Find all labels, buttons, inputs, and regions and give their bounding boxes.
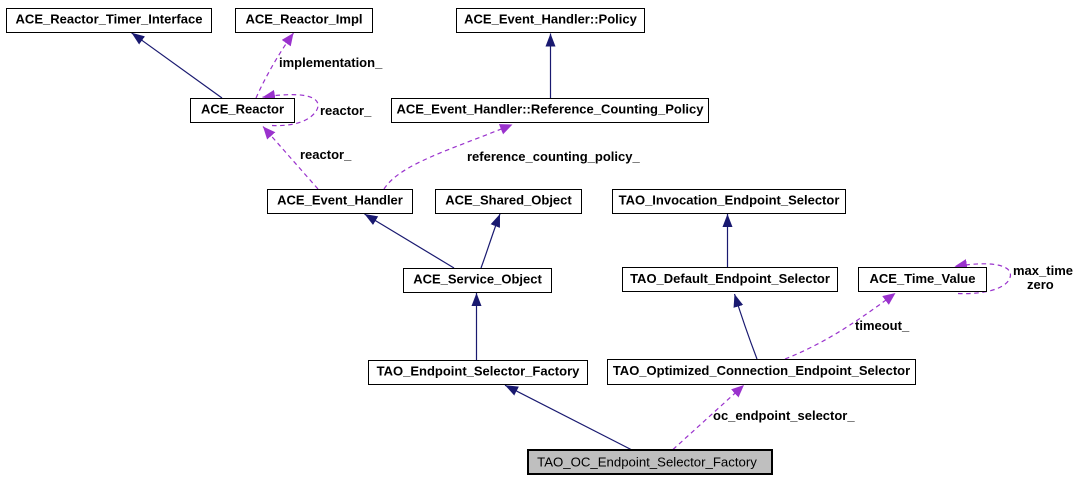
- node ACE_Shared_Object: [436, 190, 582, 214]
- svg-text:TAO_Default_Endpoint_Selector: TAO_Default_Endpoint_Selector: [630, 271, 830, 286]
- svg-text:timeout_: timeout_: [855, 318, 910, 333]
- collaboration edge TAO_OC_Endpoint_Selector_Factory -> TAO_Optimized_Connection_Endpoint_Selector: [673, 385, 744, 450]
- inheritance edge TAO_Default_Endpoint_Selector -> TAO_Invocation_Endpoint_Selector: [727, 214, 729, 267]
- node ACE_Reactor_Timer_Interface: [7, 9, 212, 33]
- svg-text:zero: zero: [1027, 277, 1054, 292]
- svg-text:implementation_: implementation_: [279, 55, 383, 70]
- node ACE_Time_Value: [859, 268, 987, 292]
- inheritance edge ACE_Service_Object -> ACE_Event_Handler: [365, 214, 455, 268]
- inheritance edge ACE_Reactor -> ACE_Reactor_Timer_Interface: [132, 33, 223, 98]
- svg-text:TAO_OC_Endpoint_Selector_Facto: TAO_OC_Endpoint_Selector_Factory: [537, 455, 757, 470]
- inheritance edge ACE_Event_Handler::Reference_Counting_Policy -> ACE_Event_Handler::Policy: [550, 34, 552, 99]
- svg-text:ACE_Event_Handler: ACE_Event_Handler: [277, 193, 403, 208]
- svg-text:max_time: max_time: [1013, 263, 1073, 278]
- svg-text:reference_counting_policy_: reference_counting_policy_: [467, 149, 640, 164]
- svg-text:ACE_Reactor_Impl: ACE_Reactor_Impl: [245, 12, 362, 27]
- svg-text:reactor_: reactor_: [320, 103, 372, 118]
- inheritance edge TAO_OC_Endpoint_Selector_Factory -> TAO_Endpoint_Selector_Factory: [505, 385, 631, 449]
- svg-text:reactor_: reactor_: [300, 147, 352, 162]
- node TAO_Optimized_Connection_Endpoint_Selector: [608, 360, 916, 385]
- svg-text:ACE_Event_Handler::Reference_C: ACE_Event_Handler::Reference_Counting_Po…: [396, 102, 704, 117]
- node ACE_Event_Handler: [268, 190, 413, 214]
- svg-text:oc_endpoint_selector_: oc_endpoint_selector_: [713, 408, 855, 423]
- node ACE_Event_Handler::Reference_Counting_Policy: [392, 99, 709, 123]
- inheritance edge TAO_Optimized_Connection_Endpoint_Selector -> TAO_Default_Endpoint_Selector: [735, 294, 758, 359]
- svg-text:ACE_Shared_Object: ACE_Shared_Object: [445, 193, 572, 208]
- svg-text:ACE_Service_Object: ACE_Service_Object: [413, 272, 542, 287]
- svg-text:ACE_Reactor: ACE_Reactor: [201, 102, 284, 117]
- svg-text:ACE_Reactor_Timer_Interface: ACE_Reactor_Timer_Interface: [16, 12, 203, 27]
- collaboration self-loop ACE_Time_Value (max_time, zero): [955, 264, 1011, 294]
- node TAO_OC_Endpoint_Selector_Factory (current, grey): [528, 450, 772, 474]
- node TAO_Endpoint_Selector_Factory: [369, 361, 588, 385]
- node TAO_Default_Endpoint_Selector: [623, 268, 838, 292]
- collaboration edge TAO_Optimized_Connection_Endpoint_Selector -> ACE_Time_Value (timeout_): [785, 293, 896, 359]
- collaboration edge ACE_Event_Handler -> ACE_Reactor (reactor_): [263, 127, 318, 190]
- svg-text:TAO_Invocation_Endpoint_Select: TAO_Invocation_Endpoint_Selector: [619, 193, 840, 208]
- node TAO_Invocation_Endpoint_Selector: [613, 190, 846, 214]
- node ACE_Reactor: [191, 99, 295, 123]
- collaboration edge ACE_Reactor -> ACE_Reactor_Impl (implementation_): [256, 33, 294, 98]
- collaboration edge ACE_Event_Handler -> ACE_Event_Handler::Reference_Counting_Policy: [384, 125, 513, 190]
- svg-text:TAO_Endpoint_Selector_Factory: TAO_Endpoint_Selector_Factory: [377, 364, 581, 379]
- svg-text:ACE_Event_Handler::Policy: ACE_Event_Handler::Policy: [464, 12, 637, 27]
- svg-text:TAO_Optimized_Connection_Endpo: TAO_Optimized_Connection_Endpoint_Select…: [613, 363, 910, 378]
- svg-text:ACE_Time_Value: ACE_Time_Value: [870, 271, 976, 286]
- inheritance edge ACE_Service_Object -> ACE_Shared_Object: [481, 214, 500, 268]
- inheritance edge TAO_Endpoint_Selector_Factory -> ACE_Service_Object: [476, 293, 478, 360]
- node ACE_Event_Handler::Policy: [457, 9, 645, 33]
- node ACE_Service_Object: [404, 269, 552, 293]
- collaboration self-loop ACE_Reactor (reactor_): [263, 95, 319, 126]
- node ACE_Reactor_Impl: [236, 9, 373, 33]
